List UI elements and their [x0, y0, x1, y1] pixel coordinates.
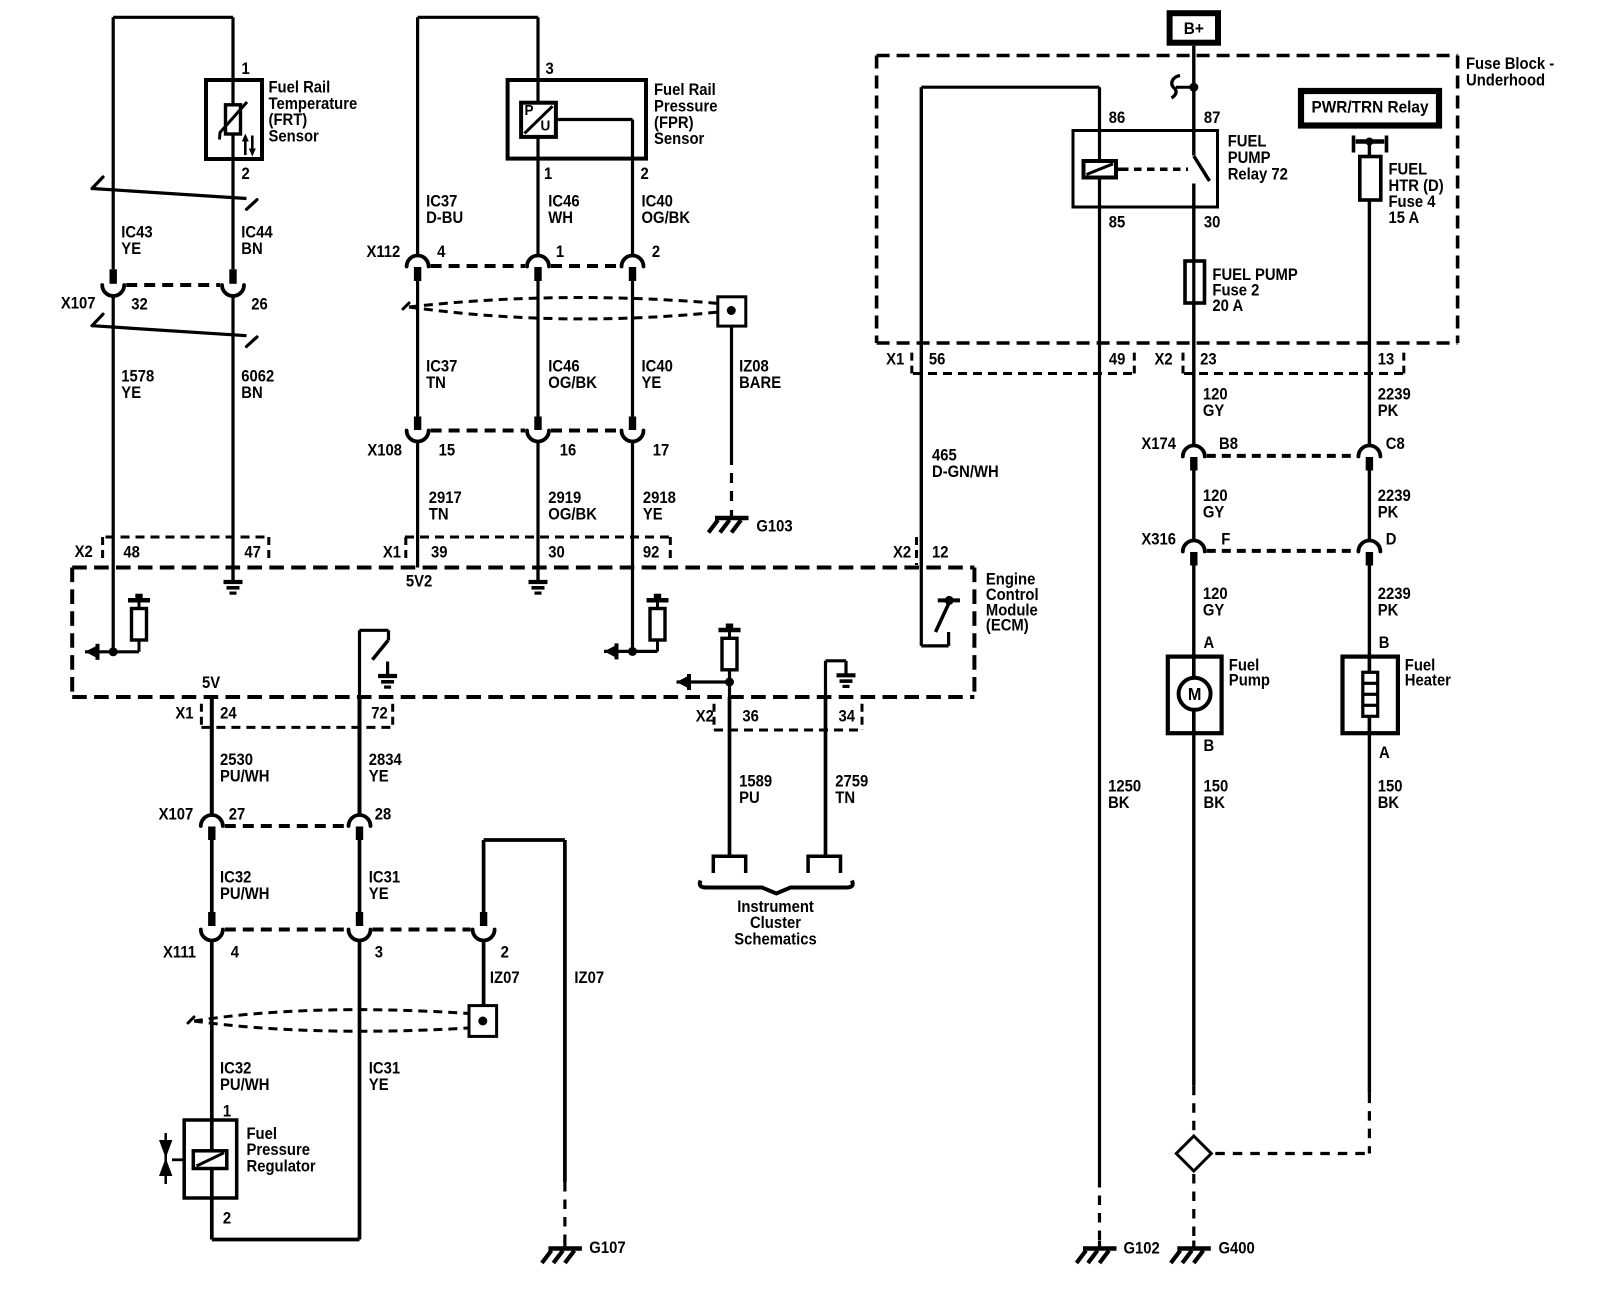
svg-text:YE: YE — [643, 506, 663, 524]
svg-text:Pressure: Pressure — [654, 98, 718, 116]
svg-text:IC46: IC46 — [548, 193, 580, 211]
svg-text:X107: X107 — [159, 806, 194, 824]
svg-text:1: 1 — [223, 1103, 232, 1121]
svg-text:FUEL: FUEL — [1228, 133, 1267, 151]
svg-text:(FRT): (FRT) — [269, 111, 308, 129]
svg-text:WH: WH — [548, 209, 573, 227]
svg-text:PU/WH: PU/WH — [220, 885, 269, 903]
svg-text:BK: BK — [1108, 794, 1130, 812]
svg-text:X174: X174 — [1141, 436, 1176, 454]
svg-text:Sensor: Sensor — [654, 130, 704, 148]
svg-text:YE: YE — [121, 384, 141, 402]
svg-text:GY: GY — [1203, 602, 1225, 620]
svg-text:16: 16 — [560, 442, 577, 460]
svg-text:BK: BK — [1378, 794, 1400, 812]
svg-text:1: 1 — [544, 165, 553, 183]
svg-text:2: 2 — [223, 1210, 232, 1228]
svg-text:Instrument: Instrument — [737, 898, 814, 916]
svg-text:IC37: IC37 — [426, 193, 457, 211]
svg-text:23: 23 — [1200, 351, 1217, 369]
svg-text:IC46: IC46 — [548, 358, 580, 376]
svg-text:IC40: IC40 — [642, 358, 674, 376]
svg-text:1250: 1250 — [1108, 778, 1141, 796]
svg-text:24: 24 — [220, 705, 237, 723]
svg-text:PU/WH: PU/WH — [220, 768, 269, 786]
svg-text:YE: YE — [369, 1076, 389, 1094]
svg-text:2530: 2530 — [220, 751, 253, 769]
svg-text:X2: X2 — [696, 708, 714, 726]
svg-text:3: 3 — [546, 60, 555, 78]
svg-text:BK: BK — [1204, 794, 1226, 812]
svg-text:56: 56 — [929, 351, 946, 369]
svg-text:U: U — [541, 118, 551, 135]
svg-text:465: 465 — [932, 447, 957, 465]
svg-text:85: 85 — [1109, 214, 1126, 232]
svg-text:M: M — [1188, 683, 1202, 704]
svg-text:X2: X2 — [1155, 351, 1173, 369]
svg-text:Fuse Block -: Fuse Block - — [1466, 56, 1554, 74]
svg-text:3: 3 — [375, 944, 384, 962]
svg-text:Heater: Heater — [1405, 672, 1451, 690]
svg-text:2239: 2239 — [1378, 585, 1411, 603]
svg-text:4: 4 — [437, 244, 446, 262]
svg-text:26: 26 — [251, 296, 268, 314]
svg-text:X316: X316 — [1141, 531, 1176, 549]
svg-text:86: 86 — [1109, 110, 1126, 128]
svg-text:120: 120 — [1203, 585, 1228, 603]
svg-text:B8: B8 — [1219, 436, 1238, 454]
svg-text:IZ08: IZ08 — [739, 358, 769, 376]
svg-text:PK: PK — [1378, 402, 1399, 420]
svg-text:BN: BN — [241, 384, 262, 402]
svg-text:X1: X1 — [383, 544, 401, 562]
svg-text:PK: PK — [1378, 504, 1399, 522]
svg-text:2918: 2918 — [643, 489, 676, 507]
svg-text:IC44: IC44 — [241, 224, 273, 242]
svg-text:39: 39 — [431, 544, 448, 562]
svg-text:YE: YE — [642, 374, 662, 392]
svg-text:IZ07: IZ07 — [574, 969, 604, 987]
svg-text:X108: X108 — [367, 442, 402, 460]
svg-text:15: 15 — [439, 442, 456, 460]
svg-text:TN: TN — [429, 506, 449, 524]
svg-text:20 A: 20 A — [1212, 298, 1243, 316]
svg-text:36: 36 — [742, 708, 759, 726]
svg-text:27: 27 — [229, 806, 246, 824]
svg-text:(FPR): (FPR) — [654, 114, 694, 132]
svg-text:120: 120 — [1203, 488, 1228, 506]
svg-text:15 A: 15 A — [1389, 209, 1420, 227]
svg-text:X1: X1 — [175, 705, 193, 723]
svg-text:D: D — [1386, 531, 1397, 549]
svg-text:PU: PU — [739, 789, 760, 807]
svg-text:P: P — [525, 103, 534, 120]
svg-text:OG/BK: OG/BK — [548, 506, 597, 524]
svg-text:Pump: Pump — [1229, 672, 1270, 690]
svg-text:92: 92 — [643, 544, 660, 562]
svg-text:150: 150 — [1378, 778, 1403, 796]
svg-text:Cluster: Cluster — [750, 914, 801, 932]
svg-text:120: 120 — [1203, 386, 1228, 404]
svg-text:2: 2 — [641, 165, 650, 183]
svg-text:6062: 6062 — [241, 368, 274, 386]
svg-text:X111: X111 — [163, 944, 196, 962]
svg-text:D-BU: D-BU — [426, 209, 463, 227]
svg-text:IC31: IC31 — [369, 869, 401, 887]
svg-text:X112: X112 — [366, 244, 400, 262]
svg-text:B: B — [1379, 635, 1390, 653]
svg-text:PK: PK — [1378, 602, 1399, 620]
svg-text:72: 72 — [371, 705, 388, 723]
svg-text:BN: BN — [241, 240, 262, 258]
svg-text:87: 87 — [1204, 110, 1221, 128]
svg-text:A: A — [1204, 635, 1215, 653]
svg-text:2239: 2239 — [1378, 386, 1411, 404]
svg-text:Fuel Rail: Fuel Rail — [654, 82, 716, 100]
svg-text:2: 2 — [501, 944, 510, 962]
svg-text:30: 30 — [548, 544, 565, 562]
svg-text:1: 1 — [242, 60, 251, 78]
svg-text:IC37: IC37 — [426, 358, 457, 376]
svg-text:2: 2 — [652, 244, 661, 262]
svg-text:G102: G102 — [1124, 1240, 1161, 1258]
svg-text:D-GN/WH: D-GN/WH — [932, 463, 999, 481]
svg-text:B: B — [1204, 738, 1215, 756]
svg-text:28: 28 — [375, 806, 392, 824]
svg-text:17: 17 — [653, 442, 670, 460]
svg-text:150: 150 — [1204, 778, 1229, 796]
svg-text:G400: G400 — [1219, 1240, 1256, 1258]
svg-text:F: F — [1221, 531, 1230, 549]
svg-text:OG/BK: OG/BK — [548, 374, 597, 392]
svg-text:Fuel: Fuel — [247, 1125, 277, 1143]
svg-text:IC40: IC40 — [642, 193, 674, 211]
svg-text:2919: 2919 — [548, 489, 581, 507]
svg-text:Underhood: Underhood — [1466, 72, 1545, 90]
svg-text:Regulator: Regulator — [247, 1158, 316, 1176]
svg-text:48: 48 — [123, 544, 140, 562]
svg-text:2239: 2239 — [1378, 488, 1411, 506]
svg-text:G103: G103 — [756, 518, 793, 536]
svg-text:YE: YE — [121, 240, 141, 258]
svg-text:GY: GY — [1203, 402, 1225, 420]
svg-text:X1: X1 — [886, 351, 904, 369]
svg-text:PU/WH: PU/WH — [220, 1076, 269, 1094]
svg-text:2834: 2834 — [369, 751, 402, 769]
svg-text:Sensor: Sensor — [269, 128, 319, 146]
svg-text:Pressure: Pressure — [247, 1141, 311, 1159]
svg-text:Schematics: Schematics — [734, 931, 817, 949]
svg-text:34: 34 — [839, 708, 856, 726]
svg-text:IC31: IC31 — [369, 1060, 401, 1078]
svg-text:1578: 1578 — [121, 368, 154, 386]
svg-text:Fuel Rail: Fuel Rail — [269, 79, 331, 97]
svg-text:X2: X2 — [75, 544, 93, 562]
svg-text:32: 32 — [131, 296, 148, 314]
svg-text:5V: 5V — [202, 675, 221, 693]
svg-text:(ECM): (ECM) — [986, 617, 1029, 635]
svg-text:BARE: BARE — [739, 374, 781, 392]
svg-text:TN: TN — [835, 789, 855, 807]
svg-text:12: 12 — [932, 544, 949, 562]
svg-text:1589: 1589 — [739, 773, 772, 791]
svg-text:Relay 72: Relay 72 — [1228, 166, 1288, 184]
svg-text:GY: GY — [1203, 504, 1225, 522]
svg-text:X2: X2 — [893, 544, 911, 562]
svg-text:5V2: 5V2 — [406, 573, 433, 591]
svg-text:TN: TN — [426, 374, 446, 392]
svg-text:X107: X107 — [61, 295, 96, 313]
svg-text:G107: G107 — [589, 1240, 625, 1258]
svg-text:47: 47 — [244, 544, 261, 562]
svg-text:2759: 2759 — [835, 773, 868, 791]
svg-text:YE: YE — [369, 768, 389, 786]
svg-text:IZ07: IZ07 — [490, 969, 520, 987]
svg-text:PWR/TRN Relay: PWR/TRN Relay — [1311, 98, 1428, 117]
svg-text:OG/BK: OG/BK — [642, 209, 691, 227]
svg-text:YE: YE — [369, 885, 389, 903]
svg-text:30: 30 — [1204, 214, 1221, 232]
svg-text:PUMP: PUMP — [1228, 149, 1271, 167]
svg-text:B+: B+ — [1184, 19, 1204, 38]
svg-text:1: 1 — [556, 244, 565, 262]
svg-text:13: 13 — [1378, 351, 1395, 369]
svg-text:IC43: IC43 — [121, 224, 153, 242]
svg-text:A: A — [1379, 745, 1390, 763]
svg-text:C8: C8 — [1386, 436, 1405, 454]
svg-text:4: 4 — [231, 944, 240, 962]
svg-text:49: 49 — [1109, 351, 1126, 369]
svg-text:2917: 2917 — [429, 489, 462, 507]
svg-text:IC32: IC32 — [220, 869, 252, 887]
svg-text:2: 2 — [242, 165, 251, 183]
svg-text:Temperature: Temperature — [269, 95, 358, 113]
svg-text:IC32: IC32 — [220, 1060, 252, 1078]
